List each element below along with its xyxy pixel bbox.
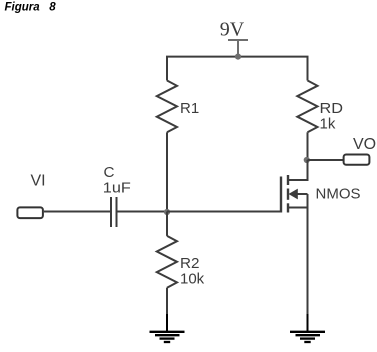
svg-text:1k: 1k	[320, 115, 336, 132]
svg-text:VO: VO	[353, 136, 376, 153]
svg-text:VI: VI	[31, 173, 46, 190]
wire VI to capacitor	[44, 211, 111, 213]
wire RD to drain node	[307, 132, 309, 160]
resistor RD	[297, 81, 317, 133]
wire R2 to ground	[166, 288, 168, 315]
wire top rail	[167, 57, 308, 81]
9V supply symbol	[228, 40, 248, 57]
resistor R2	[157, 236, 177, 288]
svg-text:RD: RD	[320, 100, 344, 117]
wire node to R2	[166, 212, 168, 236]
svg-text:1uF: 1uF	[103, 180, 131, 197]
wire drain node to VO terminal	[308, 159, 344, 161]
transistor Q1 NMOS	[281, 160, 308, 213]
node input junction dot	[164, 209, 170, 215]
wire source to ground	[307, 208, 309, 316]
wire R1 bottom to input node	[166, 132, 168, 211]
wire capacitor to node	[117, 211, 168, 213]
resistor R1	[157, 81, 177, 133]
terminal VI	[17, 207, 43, 218]
svg-text:Figura 8: Figura 8	[5, 1, 57, 13]
svg-text:C: C	[104, 164, 115, 181]
svg-text:R1: R1	[180, 100, 199, 117]
svg-text:NMOS: NMOS	[316, 186, 361, 203]
svg-text:9V: 9V	[220, 19, 245, 41]
ground right	[290, 314, 325, 342]
wire node to gate	[167, 211, 281, 213]
ground left	[150, 314, 185, 342]
node drain junction dot	[304, 157, 310, 163]
capacitor C	[111, 197, 117, 227]
svg-text:10k: 10k	[180, 270, 205, 287]
junction dot 9V tap	[235, 54, 241, 60]
terminal VO	[344, 155, 370, 165]
